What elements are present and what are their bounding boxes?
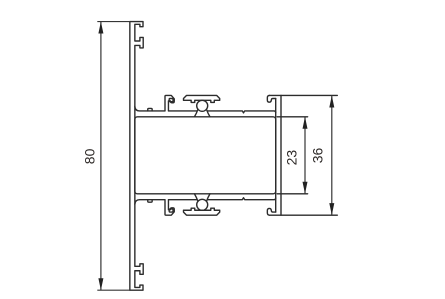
arrowhead 80 bottom xyxy=(98,278,103,290)
tube top inner + 23 extension line xyxy=(277,116,307,118)
screw boss bore circle xyxy=(197,100,208,111)
right-end gasket lip xyxy=(267,95,275,102)
arrowhead 36 bottom xyxy=(329,203,334,215)
tube end wall outer line xyxy=(280,95,282,215)
T-slot hat xyxy=(184,95,220,102)
svg-text:36: 36 xyxy=(309,148,325,164)
dimension lines xyxy=(97,22,331,291)
80 extension top xyxy=(97,21,130,23)
small gasket nub on top wall xyxy=(148,108,152,111)
tube top outer line (left, with bump + glazing post) xyxy=(135,95,197,111)
23 dimension line xyxy=(304,117,306,194)
80 extension bottom xyxy=(97,289,130,291)
horizontal tube inner cavity xyxy=(135,117,276,194)
screw boss skirt left leg xyxy=(194,109,198,116)
tube top outer line (right, with V-notch) xyxy=(207,111,275,113)
80 dimension line xyxy=(100,22,102,291)
screw boss skirt right leg xyxy=(206,109,210,116)
arrowhead 36 top xyxy=(329,95,334,107)
svg-text:23: 23 xyxy=(283,150,299,166)
top outer edge + 36 extension line xyxy=(270,94,338,96)
glazing post head inner chamber xyxy=(169,99,173,102)
arrowhead 80 top xyxy=(98,22,103,34)
arrowhead 23 top xyxy=(303,117,308,129)
36 dimension line xyxy=(331,95,333,215)
arrowhead 23 bottom xyxy=(303,182,308,194)
vertical plate profile outline xyxy=(130,22,143,291)
tube end wall inner line xyxy=(275,99,277,213)
bottom half of tube profile (mirrored copy of top features) xyxy=(135,194,337,215)
svg-text:80: 80 xyxy=(82,148,98,164)
